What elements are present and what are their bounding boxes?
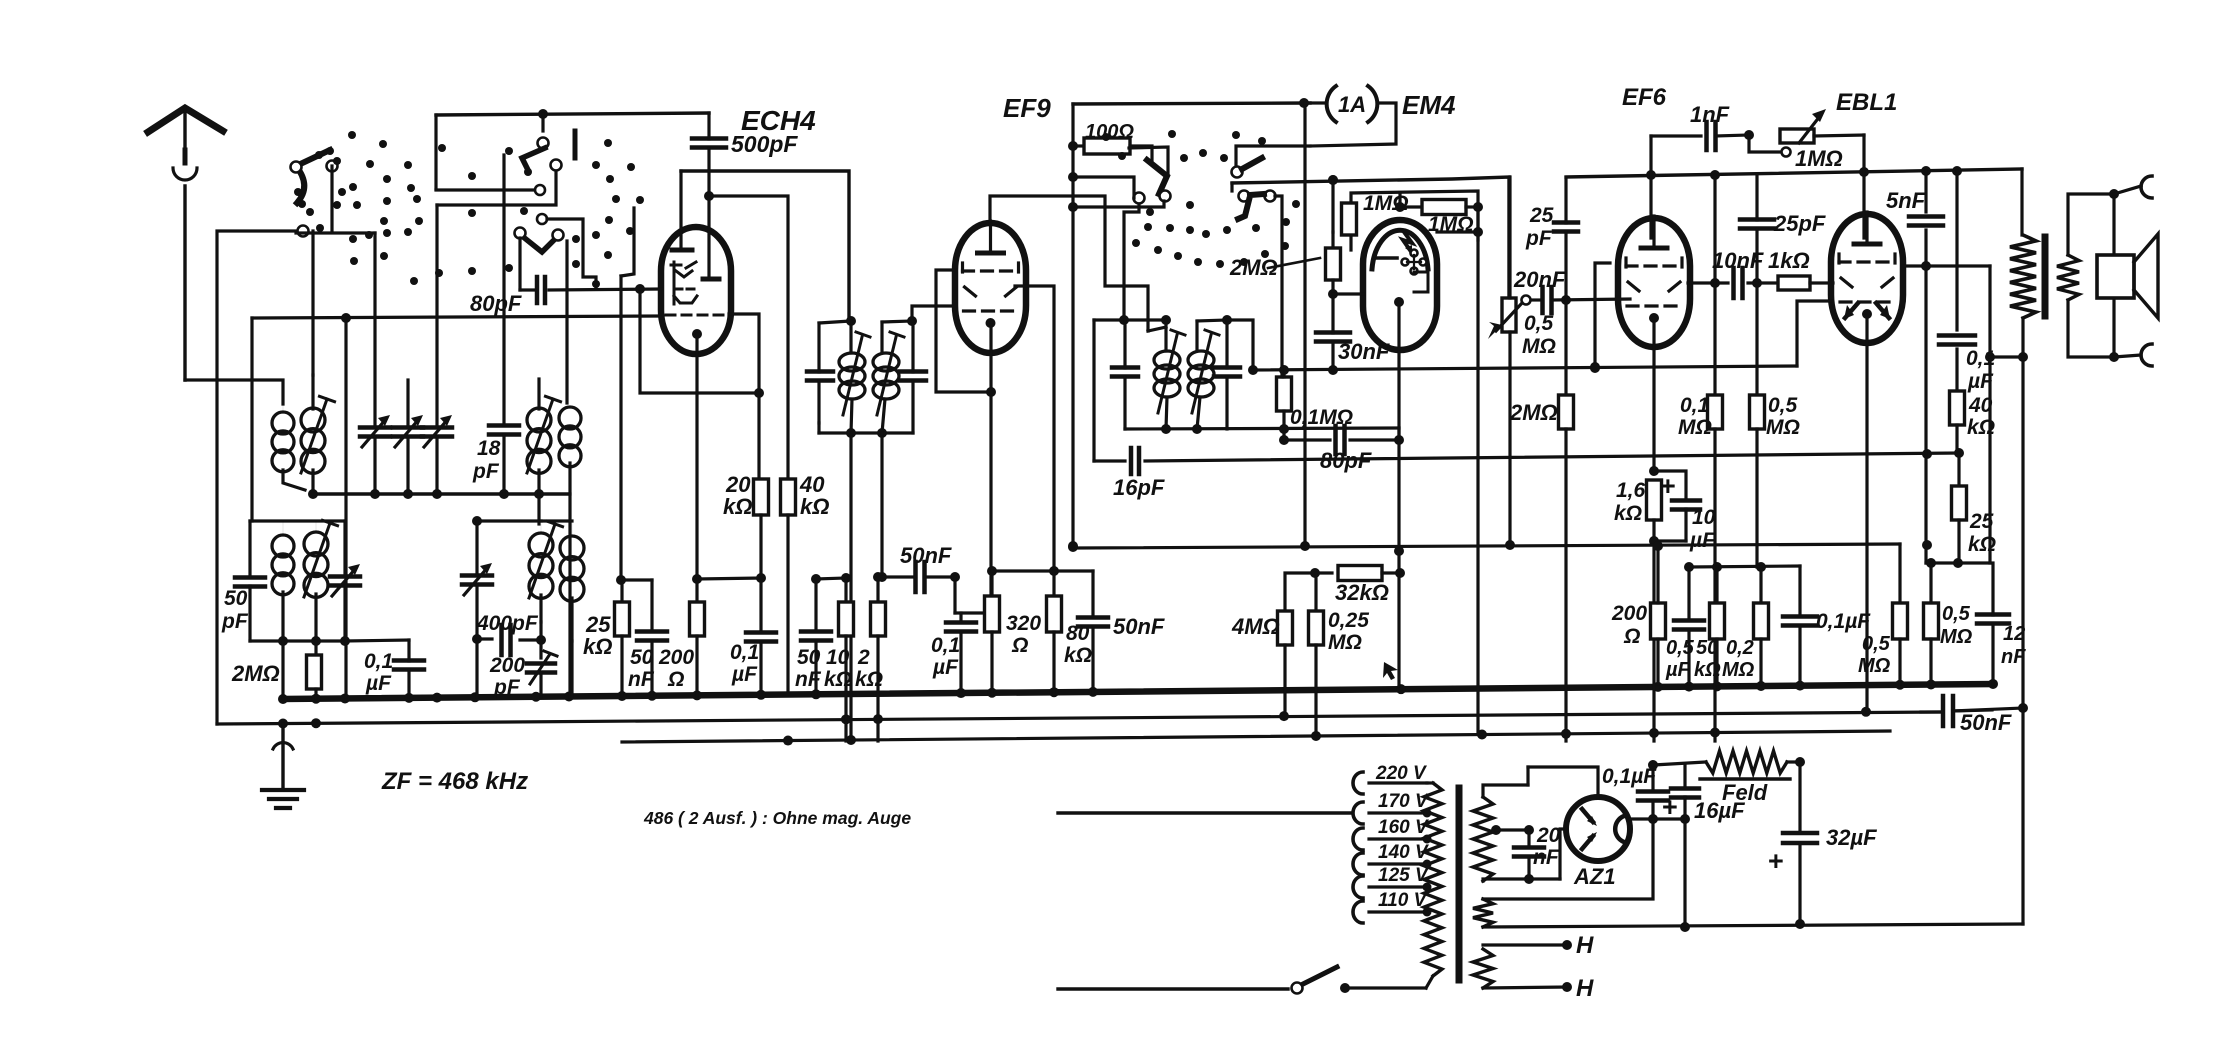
svg-text:1kΩ: 1kΩ	[1768, 248, 1810, 273]
svg-text:5nF: 5nF	[1886, 188, 1926, 213]
svg-text:µF: µF	[1665, 659, 1691, 681]
wire osc rail	[472, 516, 541, 526]
IF transformer 1 primary capacitor	[807, 323, 833, 433]
svg-text:2MΩ: 2MΩ	[231, 661, 280, 686]
label 140V	[1378, 842, 1429, 863]
svg-text:kΩ: kΩ	[1694, 659, 1721, 681]
capacitor 50nF 2	[795, 579, 831, 695]
switch mains	[1292, 967, 1427, 994]
wire EM4 inner box	[1351, 191, 1478, 250]
resistor 1k-ohm grid stopper	[1768, 248, 1833, 290]
wire B+ drop	[2018, 357, 2028, 713]
switch wafer dots cluster 1	[294, 131, 528, 285]
svg-text:ZF = 468 kHz: ZF = 468 kHz	[381, 768, 528, 795]
wire EF9 cathode	[986, 325, 996, 618]
svg-text:0,5: 0,5	[1862, 633, 1891, 655]
capacitor 1nF feedback	[1651, 102, 1754, 150]
svg-text:25: 25	[1969, 510, 1994, 533]
capacitor 50nF 3	[1054, 571, 1165, 693]
svg-text:µF: µF	[932, 656, 959, 679]
wire trap top rail	[250, 519, 343, 522]
svg-text:4MΩ: 4MΩ	[1231, 614, 1280, 639]
coil L7 oscillator tracking	[529, 521, 563, 622]
wire B+ rail upper	[1566, 166, 2022, 180]
wire heater lead 1	[1483, 932, 1594, 959]
svg-text:1A: 1A	[1338, 92, 1366, 117]
fuse 1A	[1299, 86, 1396, 146]
resistor 20k-ohm	[723, 472, 769, 630]
wire ground bus (heavy chassis line)	[283, 684, 1993, 699]
wire EF9 top cap	[990, 196, 1148, 331]
tube EBL1	[1831, 212, 1903, 343]
trimmer capacitor 200pF	[489, 651, 557, 699]
variable capacitor tuning gang 3	[422, 205, 452, 494]
switch wafer dots cluster 2	[572, 139, 644, 288]
wire EF6 grid detail	[1590, 263, 1610, 372]
wire mains lead 2	[1058, 987, 1288, 990]
terminal on left frame	[298, 226, 309, 237]
field coil Feld	[1653, 751, 1790, 805]
label 125V	[1378, 865, 1429, 886]
resistor 0.1M-ohm detector	[1277, 370, 1354, 429]
capacitor 10uF electrolytic	[1654, 471, 1716, 552]
svg-text:500pF: 500pF	[731, 131, 798, 157]
wire ECH4 osc grid link	[635, 284, 759, 393]
capacitor 0.1uF cathode ECH4	[730, 633, 776, 697]
label EBL1	[1836, 89, 1897, 116]
svg-text:+: +	[1660, 471, 1676, 501]
capacitor 500pF	[692, 113, 798, 275]
svg-text:220 V: 220 V	[1375, 763, 1427, 784]
capacitor 0.1uF ripple	[1602, 760, 1668, 819]
svg-text:kΩ: kΩ	[583, 634, 612, 659]
wire line-547 right drop	[1898, 544, 1901, 604]
tube AZ1	[1566, 797, 1630, 861]
tube EF9	[955, 221, 1026, 353]
wire heater lead 2	[1483, 975, 1594, 1002]
svg-text:kΩ: kΩ	[855, 668, 883, 691]
wire 320 riser	[992, 566, 1059, 576]
capacitor 25pF 2	[1740, 175, 1826, 283]
tube EM4	[1363, 220, 1437, 350]
wire L8 bottom to bus	[570, 641, 573, 697]
svg-text:80pF: 80pF	[470, 291, 522, 316]
wire S1 stub	[436, 185, 545, 195]
switch wafer dots cluster 3	[1102, 130, 1300, 268]
resistor 25k-ohm	[583, 580, 630, 696]
transformer T1 HV secondary	[1473, 785, 1560, 881]
svg-text:Ω: Ω	[1623, 625, 1640, 648]
svg-text:EF9: EF9	[1003, 93, 1051, 123]
switch S2 wavechange	[522, 131, 575, 176]
svg-text:kΩ: kΩ	[1614, 502, 1642, 525]
resistor 0.25M-ohm	[1309, 573, 1370, 734]
svg-text:0,5: 0,5	[1666, 637, 1695, 659]
svg-text:20nF: 20nF	[1513, 267, 1566, 292]
coil IFT1 primary	[839, 321, 870, 433]
capacitor 0.1uF antenna	[364, 640, 424, 697]
wire S3 box left	[518, 238, 521, 290]
tube ECH4	[661, 227, 731, 354]
capacitor 50nF output line	[1921, 696, 2012, 735]
bus3 junction dots	[783, 727, 1720, 745]
capacitor 18pF	[472, 155, 519, 494]
wire EBL1 diode detector	[1797, 301, 1832, 366]
svg-text:MΩ: MΩ	[1858, 655, 1891, 677]
switch S4 oscillator	[1129, 147, 1171, 204]
wire IFT1 secondary bottom drop	[877, 433, 887, 582]
resistor 0.5M-ohm a	[1858, 603, 1908, 684]
wire switch riser b	[296, 231, 375, 234]
svg-text:AZ1: AZ1	[1573, 864, 1616, 889]
label ECH4	[741, 105, 816, 136]
svg-text:10: 10	[1692, 506, 1716, 529]
wire IFT2 top	[1094, 315, 1171, 325]
wire EF6 plate	[1688, 278, 1762, 288]
svg-text:80pF: 80pF	[1320, 448, 1372, 473]
capacitor 16pF	[1094, 448, 1964, 500]
resistor 0.5M-ohm b	[1924, 563, 1973, 684]
capacitor 50pF	[221, 521, 265, 641]
capacitor 50nF coupling	[882, 543, 960, 592]
resistor 0.5M-ohm EBL1 grid leak	[1750, 283, 1800, 567]
svg-text:0,5: 0,5	[1768, 394, 1798, 417]
wire L2 top	[311, 231, 314, 375]
wire pot bottom	[1505, 332, 1515, 550]
label EM4	[1402, 90, 1456, 120]
label 160V	[1378, 817, 1429, 838]
svg-text:160 V: 160 V	[1378, 817, 1429, 838]
transformer T1 core	[1456, 788, 1463, 980]
svg-text:32kΩ: 32kΩ	[1335, 580, 1389, 605]
wire EF6 cathode	[1649, 318, 1659, 476]
resistor 50k-ohm	[1694, 567, 1725, 684]
resistor 1M-ohm horizontal	[1395, 193, 1483, 236]
svg-text:10: 10	[826, 646, 850, 669]
coil L6 wave trap	[304, 520, 338, 641]
wire IFT1 primary bottom drop	[849, 433, 852, 741]
wire B+ node	[1990, 352, 2028, 362]
svg-text:kΩ: kΩ	[1967, 416, 1995, 439]
wire 50n2-10k link	[811, 573, 851, 584]
wire top line to ECH4	[436, 109, 709, 189]
label ZF=468kHz	[381, 768, 528, 795]
wire trap to bus	[281, 641, 284, 699]
speaker	[2097, 176, 2158, 366]
svg-text:µF: µF	[1967, 370, 1994, 393]
svg-text:pF: pF	[221, 610, 249, 633]
svg-text:2: 2	[857, 646, 870, 669]
trimmer capacitor oscillator	[462, 521, 492, 697]
svg-text:320: 320	[1006, 612, 1041, 635]
wire EM4 cathode	[1394, 297, 1405, 686]
transformer T2 output primary	[2010, 169, 2036, 357]
svg-text:kΩ: kΩ	[800, 494, 829, 519]
transformer T1 rectifier filament winding	[1473, 899, 1493, 927]
capacitor 25pF	[1525, 180, 1578, 300]
wire IFT1 secondary top to EF9 grid	[912, 306, 955, 321]
wire HV bottom to AZ1 anode 2	[1560, 829, 1567, 879]
svg-text:50nF: 50nF	[1113, 614, 1165, 639]
svg-text:0,1µF: 0,1µF	[1816, 610, 1871, 633]
svg-text:50: 50	[797, 646, 821, 669]
svg-text:nF: nF	[795, 668, 822, 691]
capacitor 0.5uF	[1665, 567, 1704, 684]
svg-text:kΩ: kΩ	[1064, 644, 1092, 667]
wire ECH4 plate line	[681, 171, 849, 321]
svg-text:40: 40	[1968, 394, 1993, 417]
svg-text:1MΩ: 1MΩ	[1795, 146, 1843, 171]
transformer T1 primary taps	[1353, 772, 1432, 923]
svg-text:nF: nF	[628, 668, 655, 691]
wire EF9 plate	[1015, 286, 1054, 571]
svg-text:MΩ: MΩ	[1766, 416, 1800, 439]
IF transformer 2 secondary capacitor	[1214, 315, 1240, 429]
svg-text:50: 50	[1696, 637, 1718, 659]
svg-text:0,1: 0,1	[364, 650, 393, 673]
ground bus junction dots	[278, 679, 1998, 704]
label 170V	[1378, 791, 1429, 812]
resistor 2k-ohm	[855, 572, 886, 741]
svg-text:EF6: EF6	[1622, 84, 1667, 111]
wire trap bottom rail	[250, 636, 345, 646]
svg-text:170 V: 170 V	[1378, 791, 1429, 812]
switch S5 oscillator lower	[1238, 191, 1276, 220]
capacitor 0.1uF output	[1783, 566, 1871, 684]
svg-text:+: +	[1662, 792, 1678, 822]
transformer T2 core	[2042, 237, 2049, 316]
svg-text:25: 25	[1529, 204, 1554, 227]
wire EBL1 cathode	[1865, 316, 1868, 712]
svg-text:pF: pF	[472, 460, 500, 483]
svg-text:µF: µF	[731, 663, 758, 686]
trimmer capacitor wave trap	[330, 521, 360, 641]
resistor 10k-ohm	[824, 578, 854, 741]
wire fuse line riser	[1068, 104, 1078, 551]
svg-text:pF: pF	[1525, 227, 1553, 250]
svg-text:400pF: 400pF	[476, 612, 539, 635]
wire IFT2 left drop	[1092, 320, 1095, 461]
svg-text:MΩ: MΩ	[1328, 631, 1362, 654]
svg-text:EBL1: EBL1	[1836, 89, 1897, 116]
svg-text:Ω: Ω	[1011, 634, 1028, 657]
IF transformer 1 secondary capacitor	[900, 321, 926, 433]
IF transformer 2 primary capacitor	[1112, 320, 1138, 429]
svg-text:nF: nF	[2001, 646, 2026, 668]
wire osc rail 2	[541, 519, 572, 522]
svg-text:kΩ: kΩ	[723, 494, 752, 519]
capacitor 10nF coupling	[1712, 248, 1778, 298]
svg-text:kΩ: kΩ	[1968, 533, 1996, 556]
svg-text:25pF: 25pF	[1773, 211, 1826, 236]
coil IFT1 secondary	[873, 316, 917, 433]
wire S4 contact b	[1068, 201, 1164, 212]
wire osc switch net	[1124, 204, 1139, 320]
svg-text:MΩ: MΩ	[1722, 659, 1755, 681]
svg-text:pF: pF	[493, 676, 521, 699]
ground	[262, 724, 304, 808]
wire bus 2	[217, 708, 2023, 724]
wire link-567	[1684, 562, 1800, 572]
switch S1 wavechange	[291, 147, 338, 203]
svg-text:0,1: 0,1	[931, 634, 960, 657]
resistor 0.2M-ohm	[1722, 567, 1769, 684]
wire IFT2 bottom rail	[1125, 424, 1399, 434]
wire L4 bottom to bus	[568, 494, 571, 697]
wire AVC line	[1253, 363, 1797, 375]
resistor 32k-ohm	[1310, 566, 1400, 606]
coil L3 oscillator	[527, 379, 561, 524]
resistor 2M-ohm AF	[1509, 300, 1574, 741]
svg-text:Ω: Ω	[667, 668, 684, 691]
svg-text:200: 200	[1611, 602, 1647, 625]
svg-text:+: +	[1768, 846, 1784, 876]
transformer T1 primary winding	[1424, 783, 1442, 988]
resistor 40k-ohm	[781, 472, 830, 691]
svg-text:µF: µF	[1689, 529, 1716, 552]
resistor 320-ohm	[985, 566, 1042, 694]
svg-text:12: 12	[2003, 623, 2025, 645]
wire bus 3 (heater line)	[622, 731, 1890, 742]
wire ECH4 hexode grid	[549, 289, 728, 315]
coil L4 oscillator	[559, 241, 581, 494]
svg-text:125 V: 125 V	[1378, 865, 1429, 886]
svg-text:16pF: 16pF	[1113, 475, 1165, 500]
wire line-547	[1068, 542, 1900, 552]
resistor 4M-ohm	[1231, 573, 1315, 712]
wire IFT2 secondary top out	[1227, 320, 1258, 375]
resistor 80k-ohm	[1047, 571, 1093, 694]
switch S5 oscillator upper	[1232, 146, 1311, 178]
svg-text:2MΩ: 2MΩ	[1509, 400, 1558, 425]
wire 200-0.1 link	[692, 573, 766, 584]
svg-text:0,1: 0,1	[1680, 394, 1709, 417]
wire tank rail	[313, 492, 567, 495]
coil IFT2 secondary	[1148, 320, 1227, 429]
label 486 note	[643, 808, 911, 828]
wire HV top to AZ1 anode	[1526, 767, 1529, 785]
capacitor 0.1uF EBL1	[1939, 171, 1995, 393]
capacitor 20nF buffer	[1491, 824, 1561, 884]
wire riser 1305	[1300, 103, 1310, 551]
wire EM4 box top	[1232, 175, 1509, 298]
wire AZ1 plate feed	[1528, 767, 1598, 797]
capacitor 0.1uF EF9 cathode	[931, 577, 991, 695]
label 110V	[1378, 890, 1428, 911]
wire 50n riser	[621, 208, 634, 580]
svg-text:1,6: 1,6	[1616, 479, 1646, 502]
variable capacitor tuning gang 1	[360, 233, 390, 494]
svg-text:32µF: 32µF	[1826, 825, 1877, 850]
resistor 200-ohm	[658, 579, 705, 696]
resistor 100-ohm	[1073, 121, 1152, 162]
wire IFT1 bottom rail	[819, 428, 913, 438]
wire ECH4 g4 line	[729, 314, 764, 480]
capacitor 400pF	[472, 612, 546, 658]
tank rail dots	[308, 489, 544, 499]
wire node-563	[1926, 558, 1990, 568]
wire B- up right	[2021, 708, 2024, 924]
svg-text:30nF: 30nF	[1338, 339, 1390, 364]
wire ECH4 g2 line	[704, 191, 788, 480]
resistor 2M-ohm antenna	[231, 641, 322, 698]
wire trap rail right	[340, 636, 409, 646]
svg-text:100Ω: 100Ω	[1085, 121, 1134, 143]
wire S3 upper contact	[547, 219, 596, 289]
wire grid line ECH4 tank	[252, 313, 661, 323]
svg-text:50nF: 50nF	[1960, 710, 2012, 735]
wire S3 right contact drop	[566, 240, 568, 242]
resistor 25k-ohm	[1952, 453, 1997, 563]
coil IFT2 primary	[1154, 320, 1185, 429]
wire ECH4 cathode	[695, 334, 698, 579]
svg-text:MΩ: MΩ	[1522, 335, 1556, 358]
svg-text:486 ( 2 Ausf. ) : Ohne mag. Au: 486 ( 2 Ausf. ) : Ohne mag. Auge	[643, 808, 911, 828]
wire EBL1 plate line	[1903, 266, 1990, 357]
svg-text:0,2: 0,2	[1726, 637, 1754, 659]
wire S2 down	[437, 171, 556, 205]
wire antenna to coil	[185, 380, 283, 404]
capacitor 16uF electrolytic	[1662, 765, 1745, 932]
svg-text:µF: µF	[365, 672, 392, 695]
capacitor 80pF detector	[1279, 426, 1404, 473]
potentiometer 1M-ohm feedback	[1749, 109, 1864, 171]
wire pot to EBL1 grid cap	[1862, 135, 1865, 238]
wire EF9 suppressor loop	[936, 270, 991, 392]
capacitor 12nF	[1977, 563, 2026, 684]
capacitor 80pF padder	[470, 277, 545, 316]
wire 100ohm top line	[1068, 103, 1310, 151]
wire filament return	[1483, 819, 1653, 899]
coil L5 wave trap	[272, 521, 294, 641]
capacitor 32uF electrolytic	[1768, 762, 1877, 929]
svg-text:50: 50	[630, 646, 654, 669]
wire S4 contact a	[1068, 172, 1134, 198]
resistor 40k-ohm EBL1	[1950, 391, 1996, 453]
label 220V	[1375, 763, 1427, 784]
resistor 2M-ohm AVC	[1229, 175, 1341, 377]
capacitor 50nF IF	[628, 580, 667, 696]
wire AZ1 cathode out	[1630, 814, 1690, 824]
bus2 junction dots	[278, 707, 1871, 729]
wire EBL1 plate drop	[1985, 352, 1995, 563]
svg-text:200: 200	[489, 654, 525, 677]
svg-text:50: 50	[224, 587, 248, 610]
svg-text:MΩ: MΩ	[1940, 626, 1973, 648]
svg-text:0,1µF: 0,1µF	[1602, 765, 1657, 788]
wire EF6 plate top lead	[1649, 136, 1652, 238]
svg-text:0,25: 0,25	[1328, 609, 1369, 632]
transformer T2 secondary	[2057, 194, 2114, 357]
svg-text:0,5: 0,5	[1942, 603, 1971, 625]
coil L2 antenna secondary	[301, 375, 335, 494]
capacitor 5nF	[1886, 171, 1943, 563]
wire mains lead 1	[1058, 811, 1352, 814]
switch S3 wavechange (M contact)	[515, 214, 564, 252]
svg-text:kΩ: kΩ	[824, 668, 852, 691]
wire switch riser a	[344, 318, 347, 697]
wire Feld right	[1787, 757, 1805, 767]
wire S1 wiring	[330, 166, 333, 231]
svg-text:EM4: EM4	[1402, 90, 1456, 120]
cursor mark artifact	[1383, 662, 1398, 680]
coil L8 oscillator tracking	[560, 521, 584, 641]
wire IFT1 top rail	[819, 316, 856, 326]
wire 2M to dots	[1331, 180, 1334, 232]
wire EM4 right rail	[1437, 207, 1483, 733]
transformer T1 heater winding	[1473, 949, 1493, 988]
svg-text:50nF: 50nF	[900, 543, 952, 568]
